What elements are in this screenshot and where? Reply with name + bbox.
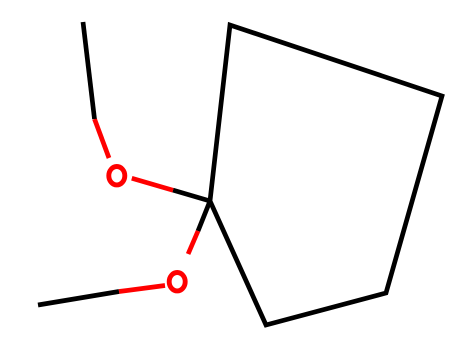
wire bond O2 to C1, oxygen half (red) <box>188 231 198 254</box>
atom label O2 (lower oxygen, red O glyph) <box>169 273 185 291</box>
cyclopentane ring C1-C2-C3-C4-C5 <box>210 25 442 325</box>
wire bond upper methyl CH3 to O1, carbon half (black) <box>83 22 95 119</box>
wire bond lower methyl CH3 to O2, carbon half (black) <box>38 292 119 306</box>
wire bond O1 to C1, oxygen half (red) <box>132 178 173 190</box>
wire bond C1 to O1, carbon half (black) <box>173 190 210 201</box>
atom label O1 (upper oxygen, red O glyph) <box>109 167 125 185</box>
wire bond O1 to upper methyl, oxygen half (red) <box>95 119 110 158</box>
wire bond O2 to lower methyl, oxygen half (red) <box>119 286 165 292</box>
wire bond C1 to O2, carbon half (black) <box>198 201 210 231</box>
